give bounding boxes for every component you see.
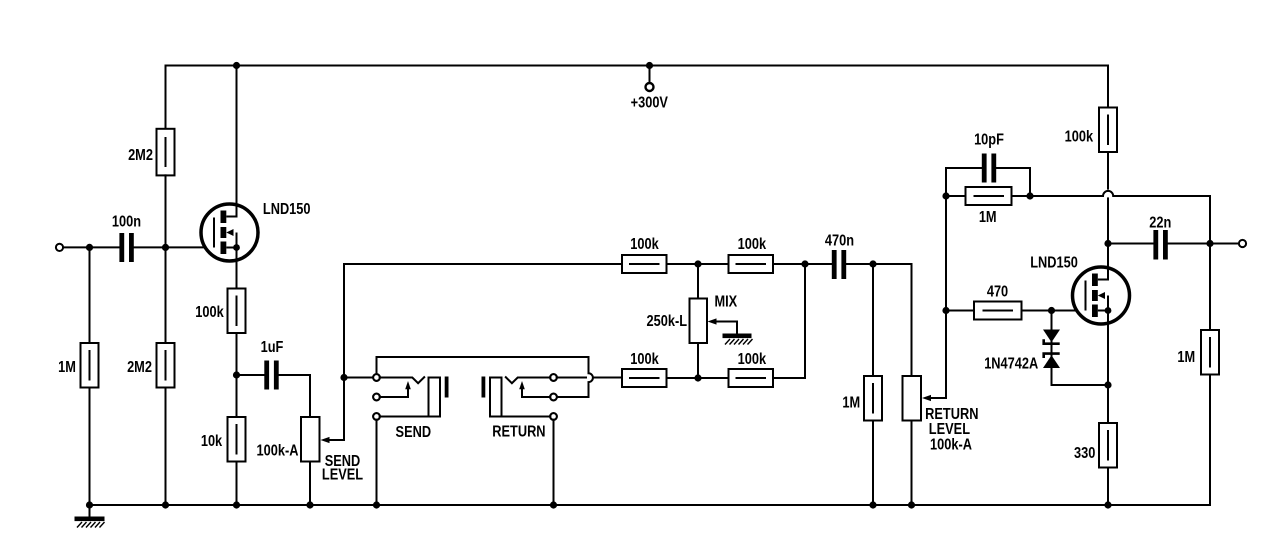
capacitor 10pF <box>946 131 1030 196</box>
node zener tap <box>1048 307 1055 314</box>
svg-text:MIX: MIX <box>714 293 737 311</box>
wire 10k to rail <box>236 462 238 506</box>
wire pot bottom to rail <box>309 462 311 506</box>
node rail send pot <box>306 501 313 508</box>
node feedback left <box>942 192 949 199</box>
wire send sleeve to rail <box>376 420 378 505</box>
resistor 2M2 lower <box>127 343 174 388</box>
wire 1M mid to rail <box>872 421 874 506</box>
transistor Q1 LND150 <box>201 201 311 261</box>
wire hop to drain node <box>1107 198 1109 243</box>
svg-text:LND150: LND150 <box>1030 254 1078 272</box>
node IN terminal <box>56 244 63 251</box>
node rail 330 <box>1104 501 1111 508</box>
wire 330 to rail <box>1107 468 1109 506</box>
node output junction <box>1206 240 1213 247</box>
node rail 1M mid <box>869 501 876 508</box>
node rail send sleeve <box>373 501 380 508</box>
svg-text:1uF: 1uF <box>261 339 284 357</box>
svg-text:1M: 1M <box>1177 349 1195 367</box>
wire bottom row up to top row <box>773 264 805 378</box>
svg-text:100k: 100k <box>738 351 767 369</box>
wire output node to terminal <box>1210 243 1239 245</box>
wire 1M right to rail <box>1209 375 1211 506</box>
node drain 22n tap <box>1104 240 1111 247</box>
svg-text:+300V: +300V <box>631 94 669 112</box>
capacitor 1uF <box>261 339 284 390</box>
jack J2 RETURN <box>482 374 557 441</box>
svg-text:1M: 1M <box>979 209 997 227</box>
jack J1 SEND <box>373 374 448 441</box>
wire 2M2 lower to rail <box>165 388 167 506</box>
node mix bottom <box>694 374 701 381</box>
wire source Q2 down <box>1107 324 1109 423</box>
wire between top 100k pair <box>667 263 729 265</box>
svg-text:100k-A: 100k-A <box>930 436 972 454</box>
resistor 100k drain Q2 <box>1065 108 1117 153</box>
svg-text:SEND: SEND <box>396 424 432 442</box>
transistor Q2 LND150 <box>1030 254 1129 324</box>
svg-text:100k: 100k <box>630 236 659 254</box>
svg-text:330: 330 <box>1074 445 1095 463</box>
svg-text:100k: 100k <box>738 236 767 254</box>
wire 2M2 upper to input row <box>165 175 167 343</box>
wire input to 1M <box>89 247 91 343</box>
node bottom row riser top <box>801 260 808 267</box>
resistor 10k <box>201 417 246 462</box>
wire 22n to output node <box>1168 243 1210 245</box>
node +300V terminal <box>631 66 669 112</box>
resistor 1M feedback <box>946 187 1030 226</box>
node OUT terminal <box>1239 240 1246 247</box>
resistor 100k top row 1 <box>622 236 667 273</box>
wire 100k down to hop <box>1107 152 1109 189</box>
wire between bottom 100k pair <box>667 377 729 379</box>
node source Q2 zener join <box>1104 381 1111 388</box>
node rail return pot <box>908 501 915 508</box>
node send level wiper junction <box>340 374 347 381</box>
svg-text:100k: 100k <box>195 304 224 322</box>
wire drain node to Q2 <box>1107 244 1109 269</box>
resistor 470 <box>974 283 1022 319</box>
svg-text:RETURN: RETURN <box>492 423 545 441</box>
wire send node to jack tip <box>344 377 373 379</box>
node rail ground junction <box>86 501 93 508</box>
wire riser to return level pot <box>911 264 913 376</box>
svg-text:250k-L: 250k-L <box>647 313 688 331</box>
wire bypass hop over return tip wire <box>557 357 593 397</box>
diode D2 zener 1N4742A <box>1043 342 1108 385</box>
resistor 2M2 upper <box>128 129 174 176</box>
wire 470n to return level riser <box>846 263 911 265</box>
wire return sleeve to rail <box>553 420 555 505</box>
svg-text:2M2: 2M2 <box>128 147 153 165</box>
node 1uF tap <box>233 371 240 378</box>
wire gate feedback riser <box>945 196 947 398</box>
wire drain node to 22n <box>1108 243 1153 245</box>
wire 1uF left <box>237 374 264 376</box>
ground mix wiper <box>723 334 753 345</box>
resistor 330 <box>1074 423 1117 468</box>
node rail return sleeve <box>550 501 557 508</box>
wire 1M to ground rail <box>89 388 91 506</box>
wire return tip to bottom resistor row <box>557 377 586 379</box>
potentiometer 100k-A RETURN LEVEL <box>903 376 979 454</box>
wire after hop to 100k <box>594 377 622 379</box>
node rail drain bus <box>233 62 240 69</box>
diode D1 zener 1N4742A <box>984 311 1060 373</box>
svg-text:10pF: 10pF <box>974 131 1004 149</box>
potentiometer 100k-A SEND LEVEL <box>257 378 364 484</box>
resistor 100k bottom row 1 <box>622 351 667 387</box>
wire 100n to gate Q1 <box>134 246 214 248</box>
wire 470 to gate Q2 <box>1022 310 1086 312</box>
wire bottom ground rail <box>90 504 1211 506</box>
wire output node to 1M right <box>1209 244 1211 331</box>
potentiometer 250k-L MIX <box>647 264 738 378</box>
wire jack bypass rail <box>377 357 589 374</box>
wire drain Q1 <box>236 66 238 206</box>
svg-text:1M: 1M <box>842 394 860 412</box>
svg-text:100k: 100k <box>1065 128 1094 146</box>
wire send node to top resistor row <box>344 264 622 378</box>
svg-text:100k-A: 100k-A <box>257 442 299 460</box>
svg-text:100k: 100k <box>630 351 659 369</box>
resistor 100k top row 2 <box>729 236 774 273</box>
resistor 100k bottom row 2 <box>729 351 774 387</box>
wire gate node to 470 <box>946 310 974 312</box>
resistor 1M right <box>1177 330 1219 375</box>
node gate node junction <box>942 307 949 314</box>
node mix top <box>694 260 701 267</box>
svg-text:470: 470 <box>987 283 1008 301</box>
resistor 1M input <box>58 343 98 388</box>
capacitor 22n <box>1149 214 1171 259</box>
wire 1uF to pot top <box>279 375 310 417</box>
ground <box>75 505 105 528</box>
node supply tap <box>646 62 653 69</box>
resistor 1M mid <box>842 376 882 421</box>
svg-text:22n: 22n <box>1149 214 1171 232</box>
resistor 100k source Q1 <box>195 289 245 334</box>
wire return pot to rail <box>911 421 913 506</box>
wire 470n node to 1M mid <box>872 264 874 376</box>
wire feedback to output with hop <box>1030 191 1210 244</box>
svg-text:10k: 10k <box>201 433 223 451</box>
wire top supply rail <box>166 66 1109 129</box>
svg-text:LEVEL: LEVEL <box>322 466 363 484</box>
wire input row <box>63 246 118 248</box>
node 2M2 junction <box>162 244 169 251</box>
node feedback right <box>1026 192 1033 199</box>
node rail 2M2 <box>162 501 169 508</box>
capacitor 470n <box>825 232 854 279</box>
node input junction <box>86 244 93 251</box>
svg-text:1M: 1M <box>58 359 76 377</box>
svg-text:470n: 470n <box>825 232 854 250</box>
node 1M mid top <box>869 260 876 267</box>
wire 100k to 10k <box>236 333 238 417</box>
wire top row to 470n <box>773 263 831 265</box>
node rail 10k <box>233 501 240 508</box>
svg-text:1N4742A: 1N4742A <box>984 355 1038 373</box>
svg-text:100n: 100n <box>112 213 141 231</box>
capacitor 100n <box>112 213 141 262</box>
svg-text:2M2: 2M2 <box>127 359 152 377</box>
svg-text:LND150: LND150 <box>263 201 311 219</box>
wire source Q1 to 100k <box>236 261 238 289</box>
